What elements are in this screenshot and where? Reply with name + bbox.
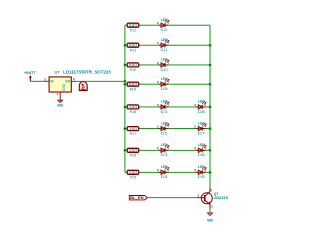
LED D3: [157, 143, 169, 157]
resistor R15: [127, 170, 139, 179]
D3 emission arrows: [165, 144, 169, 148]
wire row 5: [125, 106, 210, 108]
junction right bus row 3: [209, 64, 212, 67]
right bus wire: [209, 25, 211, 188]
U7 body: [49, 77, 71, 92]
resistor R9: [127, 82, 139, 91]
D5 pin 1 (cathode) stub: [202, 171, 205, 173]
D4 pin 1 (cathode) stub: [165, 171, 168, 173]
svg-text:3: 3: [211, 205, 213, 209]
svg-text:D5: D5: [198, 175, 205, 179]
D4 emission arrows: [165, 166, 169, 170]
D9 pin 2 (anode) stub: [158, 83, 161, 85]
D1 pin 2 (anode) stub: [158, 106, 161, 108]
svg-text:2: 2: [157, 103, 159, 107]
R15 body: [127, 170, 139, 174]
svg-text:1: 1: [167, 146, 169, 150]
D11 pin 2 (anode) stub: [158, 44, 161, 46]
svg-text:D3: D3: [161, 153, 168, 157]
svg-text:+BATT: +BATT: [24, 71, 36, 75]
svg-text:1: 1: [205, 102, 207, 106]
junction left bus row 7: [124, 149, 127, 152]
LED D11: [157, 38, 169, 52]
svg-text:2: 2: [73, 77, 75, 81]
svg-text:VI: VI: [50, 80, 53, 84]
wire Q7 emitter to ground: [209, 209, 211, 213]
junction right bus row 6: [209, 127, 212, 130]
LED D9: [157, 77, 169, 91]
U7 pin 3 stub: [45, 80, 49, 82]
svg-text:R10: R10: [130, 68, 137, 72]
svg-text:LED: LED: [161, 58, 168, 62]
D10 pin 1 (cathode) stub: [165, 64, 168, 66]
svg-text:1: 1: [167, 124, 169, 128]
svg-text:BL_EN: BL_EN: [130, 196, 144, 200]
svg-text:2: 2: [194, 168, 196, 172]
svg-text:R18: R18: [130, 110, 137, 114]
D1 diode triangle and cathode bar: [161, 105, 165, 109]
svg-text:D6: D6: [198, 153, 205, 157]
resistor R16: [127, 148, 139, 157]
junction right bus row 5: [209, 106, 212, 109]
junction left bus row 2: [124, 44, 127, 47]
left bus wire: [124, 25, 126, 172]
LED D10: [157, 58, 169, 72]
U7 pin 1 stub: [59, 92, 61, 96]
wire row 8: [125, 171, 210, 173]
svg-text:1: 1: [167, 80, 169, 84]
svg-text:GND: GND: [57, 103, 64, 107]
D11 pin 1 (cathode) stub: [165, 44, 168, 46]
D6 diode triangle and cathode bar: [198, 148, 202, 152]
wire row 1: [125, 24, 210, 26]
D6 pin 1 (cathode) stub: [202, 149, 205, 151]
junction right bus row 2: [209, 44, 212, 47]
D2 pin 1 (cathode) stub: [165, 128, 168, 130]
LED D8: [194, 100, 206, 114]
svg-text:R9: R9: [130, 87, 137, 91]
ground symbol under Q7: [207, 213, 214, 223]
LED D4: [157, 165, 169, 179]
junction left bus row 5: [124, 106, 127, 109]
D8 pin 1 (cathode) stub: [202, 106, 205, 108]
D1 pin 1 (cathode) stub: [165, 106, 168, 108]
svg-text:LED: LED: [161, 18, 168, 22]
wire +BATT to U7 pin 3: [30, 80, 45, 82]
LED D12: [157, 18, 169, 32]
svg-text:D1: D1: [161, 110, 168, 114]
svg-text:2: 2: [157, 146, 159, 150]
svg-text:2: 2: [194, 125, 196, 129]
D7 pin 1 (cathode) stub: [202, 128, 205, 130]
svg-text:LED: LED: [198, 165, 205, 169]
D4 pin 2 (anode) stub: [158, 171, 161, 173]
D11 diode triangle and cathode bar: [161, 43, 165, 47]
wire U7 VO to left bus: [76, 80, 125, 82]
svg-text:U7: U7: [55, 70, 61, 75]
svg-text:D4: D4: [161, 175, 168, 179]
svg-text:LED: LED: [198, 143, 205, 147]
R17 body: [127, 127, 139, 131]
junction right bus row 7: [209, 149, 212, 152]
svg-text:1: 1: [167, 168, 169, 172]
junction left bus row 3: [124, 64, 127, 67]
D2 diode triangle and cathode bar: [161, 127, 165, 131]
junction right bus row 4: [209, 83, 212, 86]
svg-text:2: 2: [198, 194, 200, 198]
junction left bus row 6: [124, 127, 127, 130]
svg-text:LED: LED: [161, 100, 168, 104]
D9 emission arrows: [165, 78, 169, 82]
resistor R17: [127, 127, 139, 136]
svg-text:2N2219: 2N2219: [214, 196, 228, 200]
global label BL_EN: [129, 196, 147, 201]
svg-text:1: 1: [167, 60, 169, 64]
wire row 3: [125, 64, 210, 66]
resistor R12: [127, 23, 139, 32]
D6 pin 2 (anode) stub: [196, 149, 199, 151]
svg-text:LED: LED: [161, 38, 168, 42]
LED D7: [194, 121, 206, 135]
D4 diode triangle and cathode bar: [161, 170, 165, 174]
simulation-exclude icon next to U7: [79, 82, 87, 91]
D12 emission arrows: [165, 19, 169, 23]
svg-text:GND: GND: [207, 219, 214, 223]
svg-text:2: 2: [157, 21, 159, 25]
D7 emission arrows: [202, 123, 206, 127]
junction U7 VO feed on left bus: [124, 80, 127, 83]
svg-text:D8: D8: [198, 110, 205, 114]
D10 pin 2 (anode) stub: [158, 64, 161, 66]
D2 emission arrows: [165, 123, 169, 127]
svg-text:680: 680: [129, 83, 138, 87]
resistor R11: [127, 43, 139, 52]
R10 body: [127, 63, 139, 67]
U7 pin 2 stub: [71, 80, 76, 82]
svg-text:R17: R17: [130, 132, 137, 136]
D12 diode triangle and cathode bar: [161, 23, 165, 27]
Q7 base bar: [204, 195, 206, 201]
svg-text:1: 1: [205, 124, 207, 128]
svg-text:GND: GND: [62, 83, 66, 91]
wire row 2: [125, 44, 210, 46]
LED D2: [157, 121, 169, 135]
resistor R10: [127, 63, 139, 72]
svg-text:LED: LED: [161, 121, 168, 125]
svg-text:R12: R12: [130, 28, 137, 32]
svg-text:1: 1: [211, 188, 213, 192]
svg-text:2: 2: [157, 125, 159, 129]
Q7 body circle: [201, 193, 212, 204]
LED D1: [157, 100, 169, 114]
svg-text:LED: LED: [161, 165, 168, 169]
D9 pin 1 (cathode) stub: [165, 83, 168, 85]
svg-text:1: 1: [167, 21, 169, 25]
svg-text:LED: LED: [198, 121, 205, 125]
D8 diode triangle and cathode bar: [198, 105, 202, 109]
svg-text:680: 680: [129, 44, 138, 48]
D3 pin 2 (anode) stub: [158, 149, 161, 151]
D5 diode triangle and cathode bar: [198, 170, 202, 174]
svg-text:1: 1: [205, 168, 207, 172]
svg-text:680: 680: [129, 63, 138, 67]
svg-text:2: 2: [157, 168, 159, 172]
svg-text:D2: D2: [161, 132, 168, 136]
D11 emission arrows: [165, 39, 169, 43]
D3 diode triangle and cathode bar: [161, 148, 165, 152]
D6 emission arrows: [202, 144, 206, 148]
LED D6: [194, 143, 206, 157]
svg-text:D7: D7: [198, 132, 205, 136]
svg-text:680: 680: [129, 24, 138, 28]
svg-text:R16: R16: [130, 154, 137, 158]
wire row 4: [125, 83, 210, 85]
wire row 6: [125, 128, 210, 130]
D10 emission arrows: [165, 59, 169, 63]
svg-text:D10: D10: [161, 68, 168, 72]
R16 body: [127, 148, 139, 152]
D12 pin 1 (cathode) stub: [165, 24, 168, 26]
resistor R18: [127, 105, 139, 114]
svg-text:1: 1: [205, 146, 207, 150]
svg-text:160: 160: [129, 149, 138, 153]
svg-text:LD1117S50TR_SOT223: LD1117S50TR_SOT223: [63, 70, 111, 75]
svg-text:2: 2: [194, 103, 196, 107]
svg-text:VO: VO: [65, 80, 70, 84]
junction left bus row 4: [124, 83, 127, 86]
svg-text:2: 2: [157, 41, 159, 45]
D3 pin 1 (cathode) stub: [165, 149, 168, 151]
junction right bus row 8: [209, 171, 212, 174]
D7 diode triangle and cathode bar: [198, 127, 202, 131]
svg-text:1: 1: [57, 92, 59, 96]
D8 emission arrows: [202, 101, 206, 105]
svg-text:D11: D11: [161, 48, 168, 52]
svg-text:R11: R11: [130, 48, 137, 52]
regulator U7 LD1117S50TR_SOT223: [44, 70, 111, 97]
Q7 emitter pin with arrow: [205, 200, 210, 209]
svg-text:1: 1: [167, 102, 169, 106]
R12 body: [127, 23, 139, 27]
svg-text:D9: D9: [161, 87, 168, 91]
transistor Q7 2N2219: [197, 188, 229, 209]
D9 diode triangle and cathode bar: [161, 82, 165, 86]
D5 pin 2 (anode) stub: [196, 171, 199, 173]
svg-text:2: 2: [157, 80, 159, 84]
D1 emission arrows: [165, 101, 169, 105]
LED D5: [194, 165, 206, 179]
D2 pin 2 (anode) stub: [158, 128, 161, 130]
svg-text:LED: LED: [161, 77, 168, 81]
svg-text:D12: D12: [161, 28, 168, 32]
svg-text:160: 160: [129, 105, 138, 109]
svg-text:1: 1: [167, 41, 169, 45]
D10 diode triangle and cathode bar: [161, 63, 165, 67]
wire row 7: [125, 149, 210, 151]
Q7 base pin: [197, 197, 205, 199]
svg-text:2: 2: [157, 61, 159, 65]
svg-text:LED: LED: [161, 143, 168, 147]
Q7 collector pin: [205, 188, 210, 197]
svg-text:LED: LED: [198, 100, 205, 104]
power symbol +BATT: [24, 71, 36, 81]
D12 pin 2 (anode) stub: [158, 24, 161, 26]
svg-text:160: 160: [129, 127, 138, 131]
D7 pin 2 (anode) stub: [196, 128, 199, 130]
svg-text:R15: R15: [130, 176, 137, 180]
R11 body: [127, 43, 139, 47]
D8 pin 2 (anode) stub: [196, 106, 199, 108]
svg-text:2: 2: [194, 146, 196, 150]
R18 body: [127, 105, 139, 109]
svg-text:160: 160: [129, 171, 138, 175]
D5 emission arrows: [202, 166, 206, 170]
R9 body: [127, 82, 139, 86]
ground symbol under U7: [57, 96, 64, 107]
wire BL_EN to Q7 base: [147, 197, 196, 199]
